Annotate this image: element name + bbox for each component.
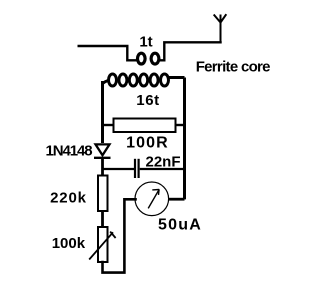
wire right rail (183, 78, 186, 200)
resistor R1 100R (103, 119, 185, 133)
meter M1 body (135, 182, 169, 216)
wire 1t winding to antenna (160, 42, 221, 60)
wire junction to capacitor (103, 168, 135, 170)
svg-text:1N4148: 1N4148 (46, 143, 93, 160)
svg-text:22nF: 22nF (145, 154, 180, 171)
svg-text:100k: 100k (52, 235, 86, 252)
svg-text:100R: 100R (126, 135, 169, 152)
wire meter right terminal to right rail (169, 198, 185, 201)
wire top-left to 1t winding (79, 46, 136, 60)
svg-text:Ferrite core: Ferrite core (196, 59, 270, 76)
potentiometer R3 100k (89, 227, 115, 262)
wire capacitor to right rail (140, 168, 185, 170)
svg-text:1t: 1t (139, 33, 152, 50)
wire diode cathode to 220k (101, 158, 104, 176)
capacitor C1 22nF (135, 159, 139, 178)
antenna (214, 14, 227, 42)
resistor R2 220k (98, 176, 108, 212)
meter M1 needle (148, 189, 159, 208)
diode D1 1N4148 (94, 144, 111, 157)
inductor L2 16t winding (103, 74, 185, 86)
svg-text:50uA: 50uA (158, 217, 202, 234)
svg-text:16t: 16t (136, 92, 159, 109)
wire left rail (16t to diode) (101, 81, 104, 143)
wire 100k to meter left terminal (103, 199, 136, 272)
svg-text:220k: 220k (50, 189, 87, 206)
inductor L1 1t winding (138, 53, 159, 64)
wire 220k to 100k (101, 211, 104, 227)
